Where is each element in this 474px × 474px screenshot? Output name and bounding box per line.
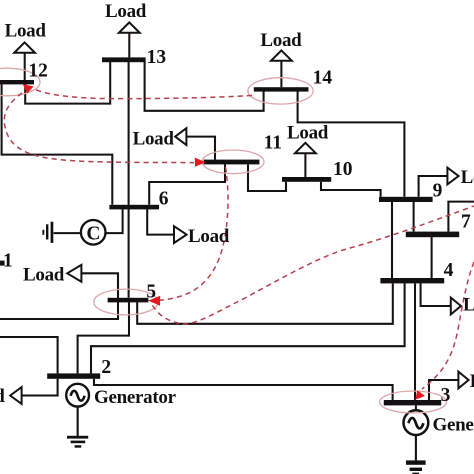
svg-text:10: 10 [333, 159, 353, 180]
capacitor/ground bars left of C [42, 222, 53, 243]
bus 4 bar [380, 278, 444, 283]
svg-text:5: 5 [146, 281, 156, 302]
svg-text:Load: Load [105, 1, 147, 22]
red dashed curve bus11 to bus5 [160, 167, 228, 300]
wire load line bus 2 [22, 379, 58, 396]
bus 9 bar [379, 197, 433, 202]
svg-text:Load: Load [470, 371, 474, 392]
red dashed curve bus14 to bus12 [34, 89, 252, 99]
wire branch 4-9 [391, 202, 393, 278]
synchronous condenser C at bus 6 [54, 209, 123, 245]
red dashed curve bus5 to right edge [153, 206, 474, 324]
svg-text:3: 3 [441, 385, 451, 406]
load arrow bus 14 (up) [271, 50, 292, 60]
wire load line bus 3 [429, 380, 458, 400]
wire load line bus 13 [128, 33, 130, 58]
red dashed curve right edge to bus3 [422, 262, 474, 389]
red arrowhead at bus 3 [415, 390, 425, 400]
wire branch 1-2 [0, 337, 58, 373]
svg-text:Load: Load [23, 265, 65, 286]
wire load line bus 4 [421, 283, 451, 306]
svg-text:Load: Load [260, 30, 302, 51]
svg-text:Generator: Generator [94, 387, 177, 408]
wire load line bus 9 [419, 176, 448, 197]
wire branch 4-5 [137, 283, 393, 323]
wire load line bus 14 [280, 61, 282, 88]
load arrow bus 10 (up) [295, 143, 316, 153]
svg-text:12: 12 [28, 60, 48, 81]
bus 14 bar [254, 87, 309, 91]
red ellipse around bus 14 [248, 78, 313, 104]
svg-text:7: 7 [461, 211, 471, 232]
red arrowhead at bus 12 [23, 84, 34, 93]
wire load line bus 5 [81, 273, 118, 298]
red ellipse around bus 11 [202, 150, 264, 174]
svg-text:1: 1 [3, 250, 13, 271]
load arrow bus 12 (up) [14, 42, 35, 52]
wire branch 10-11 [248, 164, 286, 191]
svg-text:9: 9 [433, 180, 443, 201]
bus 6 bar [109, 205, 159, 210]
svg-text:4: 4 [444, 260, 454, 281]
svg-text:2: 2 [101, 357, 111, 378]
red arrowhead at bus 11 [195, 158, 206, 167]
generator G1 at bus 2 [66, 384, 89, 407]
wire branch 1-5 [0, 273, 118, 319]
wire branch 3-4 [414, 283, 416, 400]
svg-text:Load: Load [133, 128, 175, 149]
load arrow bus 6 (right) [174, 226, 187, 243]
load arrow bus 4 (right) [451, 298, 461, 315]
bus 1 bar (clipped) [0, 261, 5, 266]
svg-text:Generator: Generator [433, 415, 474, 436]
svg-text:6: 6 [159, 188, 169, 209]
wire load line bus 11 [186, 137, 215, 160]
bus 10 bar [282, 177, 331, 182]
load arrow bus 13 (up) [119, 22, 140, 32]
load arrow bus 5 (left) [67, 265, 81, 282]
svg-text:Load: Load [188, 226, 230, 247]
red ellipse around bus 5 [94, 289, 158, 315]
svg-text:Load: Load [461, 167, 474, 188]
svg-text:13: 13 [147, 47, 167, 68]
wire branch 2-3 [94, 379, 393, 400]
svg-text:Load: Load [0, 386, 5, 407]
wire branch 12-13 [25, 62, 110, 104]
bus 7 bar [406, 232, 459, 238]
bus 5 bar [108, 298, 149, 303]
wire branch 9-10 [321, 182, 381, 197]
svg-text:Load: Load [5, 21, 47, 42]
wire branch 13-6-5 spine [128, 62, 130, 298]
bus 12 bar [0, 80, 34, 84]
red ellipse around bus 3 [380, 391, 447, 413]
generator G2 at bus 3 [404, 405, 429, 435]
ground of generator G2 [406, 435, 426, 474]
red ellipse around bus 12 [0, 68, 40, 96]
wire load line bus 12 [24, 53, 26, 80]
wire branch 7-9 [413, 202, 415, 232]
wire branch 9-14 [298, 91, 405, 196]
load arrow bus 3 (right) [458, 372, 468, 389]
load arrow bus 9 (right) [447, 168, 458, 185]
wire branch 2-5 [78, 302, 129, 373]
bus 11 bar [204, 160, 260, 165]
svg-text:Load: Load [463, 294, 474, 315]
wire load line bus 6 [147, 209, 174, 235]
wire branch 7-8 (clipped at right edge) [448, 202, 474, 232]
svg-text:14: 14 [313, 68, 333, 89]
svg-text:C: C [86, 223, 100, 244]
svg-text:Load: Load [287, 123, 329, 144]
wire branch 6-11 [149, 164, 225, 204]
wire branch 6-12 [2, 84, 113, 205]
ground of generator G1 [67, 407, 88, 448]
bus 2 bar [47, 373, 100, 378]
red arrowhead at bus 5 [148, 296, 160, 306]
bus 3 bar [384, 400, 441, 405]
wire branch 13-14 [145, 62, 264, 111]
wire branch 2-4 [91, 283, 405, 373]
wire load line bus 10 [304, 153, 306, 177]
red dashed curve bus12 to bus11 [4, 93, 194, 163]
svg-text:11: 11 [264, 132, 282, 153]
load arrow bus 11 (left) [175, 128, 186, 145]
wire branch 4-7 [431, 237, 433, 278]
load arrow bus 2 (left) [10, 387, 21, 404]
bus 13 bar [102, 57, 146, 62]
